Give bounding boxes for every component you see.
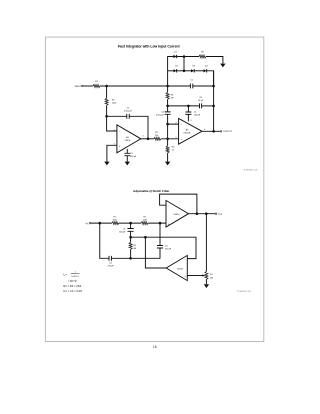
svg-text:10M: 10M	[143, 220, 147, 222]
svg-text:2πR1C1: 2πR1C1	[71, 276, 80, 278]
svg-text:5M: 5M	[133, 248, 136, 250]
svg-text:270 pF: 270 pF	[107, 265, 114, 267]
svg-text:= 60 Hz: = 60 Hz	[68, 280, 77, 283]
svg-text:0.001 μF: 0.001 μF	[156, 114, 165, 116]
svg-text:150k: 150k	[112, 102, 116, 104]
svg-text:2: 2	[176, 122, 177, 124]
svg-text:R1 = R2 = 2R3: R1 = R2 = 2R3	[63, 284, 81, 288]
svg-text:TL/H/7057–30: TL/H/7057–30	[237, 291, 252, 293]
svg-text:6: 6	[204, 129, 205, 131]
svg-text:LM107: LM107	[177, 268, 184, 270]
svg-text:2: 2	[114, 129, 115, 131]
svg-text:10M: 10M	[113, 220, 117, 222]
svg-text:6: 6	[143, 136, 144, 138]
svg-text:15k: 15k	[155, 135, 158, 137]
svg-text:3: 3	[114, 144, 115, 146]
svg-text:LM110: LM110	[174, 214, 181, 216]
svg-text:3: 3	[176, 137, 177, 139]
svg-text:10k: 10k	[210, 277, 213, 279]
svg-text:1k: 1k	[172, 150, 174, 152]
svg-text:10 μF: 10 μF	[198, 100, 204, 102]
svg-text:OUTPUT: OUTPUT	[223, 131, 233, 133]
svg-text:100 pF: 100 pF	[194, 115, 201, 117]
svg-text:1M: 1M	[171, 97, 174, 99]
svg-text:C1 = C2 = C3/2: C1 = C2 = C3/2	[63, 289, 82, 293]
svg-text:LM101A: LM101A	[184, 131, 191, 134]
svg-text:8: 8	[191, 120, 192, 122]
svg-text:Adjustable Q Notch Filter: Adjustable Q Notch Filter	[133, 189, 170, 193]
svg-text:540 pF: 540 pF	[119, 231, 126, 233]
svg-text:18: 18	[153, 345, 157, 349]
svg-text:270 pF: 270 pF	[165, 249, 172, 251]
svg-text:Fast Integrator with Low Input: Fast Integrator with Low Input Current	[118, 44, 180, 48]
svg-text:INPUT: INPUT	[75, 86, 82, 88]
svg-text:300 pF: 300 pF	[130, 156, 137, 158]
svg-text:0.001 μF: 0.001 μF	[124, 110, 133, 112]
svg-text:LM108: LM108	[125, 140, 131, 142]
svg-text:TL/H/7057–29: TL/H/7057–29	[243, 169, 258, 171]
